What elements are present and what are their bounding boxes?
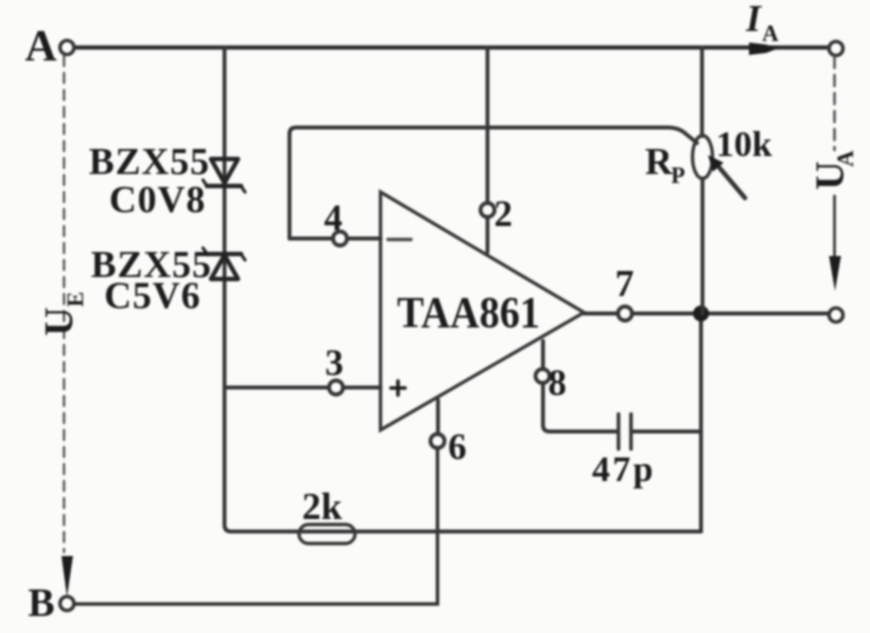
node B terminal [60, 597, 74, 611]
terminal: bottom right output [829, 308, 843, 322]
R_P wiper arrow [708, 155, 745, 198]
svg-text:2k: 2k [302, 486, 343, 528]
zener diode D2 BZX55 C5V6 [203, 248, 245, 279]
svg-text:A: A [25, 21, 57, 70]
svg-text:R: R [645, 141, 673, 183]
pin 6 terminal circle [431, 434, 445, 448]
wire: output line from op-amp apex to right terminal [584, 312, 829, 316]
wire: top rail from A to output terminal [75, 45, 829, 49]
arrow: U_A pointing down [829, 256, 841, 291]
op-amp non-inverting input plus sign [391, 381, 405, 395]
svg-text:P: P [671, 163, 685, 188]
wire: pin 3 input from zener branch [225, 386, 381, 390]
svg-text:10k: 10k [716, 124, 772, 164]
svg-text:I: I [745, 0, 762, 40]
svg-text:TAA861: TAA861 [397, 288, 540, 337]
arrow: U_E pointing down to B [62, 556, 74, 597]
arrow: output current I_A on top rail [749, 43, 778, 56]
svg-text:E: E [63, 292, 88, 307]
zener diode D1 BZX55 C0V8 [203, 159, 245, 192]
capacitor C1 47p plates [619, 414, 632, 449]
svg-text:2: 2 [494, 194, 513, 235]
op-amp inverting input minus sign [388, 238, 411, 241]
wire: right output column U_A dashed [833, 57, 836, 150]
terminal: top right output [829, 42, 843, 56]
svg-text:A: A [762, 21, 779, 46]
wire: pin 8 down and right to compensation capacitor [543, 341, 617, 432]
wire: pin 2 from top rail down to op-amp top edge [486, 48, 490, 253]
wire: left input column U_E (A down to B), faint dashed [63, 56, 65, 552]
potentiometer R_P 10k body [693, 136, 713, 179]
svg-text:4: 4 [324, 198, 343, 239]
svg-text:6: 6 [448, 427, 467, 468]
svg-text:A: A [833, 150, 858, 167]
label: input voltage U_E [36, 292, 88, 336]
wire: pin 6 stub inside to bottom [436, 400, 440, 434]
svg-text:B: B [28, 580, 55, 625]
op-amp U1 TAA861 triangle [381, 192, 585, 430]
pin 4 terminal circle [333, 232, 347, 246]
pin 3 terminal circle [329, 381, 343, 395]
svg-text:BZX55: BZX55 [89, 141, 210, 183]
svg-text:47p: 47p [592, 449, 656, 489]
svg-text:8: 8 [548, 363, 567, 404]
wire: below R_P to output junction [701, 179, 705, 314]
svg-text:U: U [36, 307, 81, 336]
pin 8 terminal circle [536, 369, 550, 383]
svg-text:7: 7 [615, 263, 634, 305]
junction dot at output node [693, 306, 709, 322]
svg-text:C0V8: C0V8 [109, 179, 206, 221]
pin 2 terminal circle [481, 203, 495, 217]
wire: feedback loop pin 4 to potentiometer R_P [290, 128, 698, 239]
wire: output column from junction down to 2k wire [699, 314, 703, 532]
wire: bottom rail from B to op-amp pin 6 [75, 449, 438, 605]
wire: R_P column from top rail to pot [700, 48, 704, 137]
wire: pin 4 stub [290, 237, 381, 241]
svg-text:C5V6: C5V6 [104, 275, 201, 317]
wire: zener branch down from top rail to 2k wire [225, 48, 702, 532]
pin 7 terminal circle [618, 307, 632, 321]
node A terminal [60, 41, 74, 55]
wire: capacitor right side to output column [633, 430, 701, 434]
label: output voltage U_A [807, 150, 858, 190]
svg-text:3: 3 [325, 343, 344, 384]
potentiometer R1 2k body [299, 525, 355, 544]
